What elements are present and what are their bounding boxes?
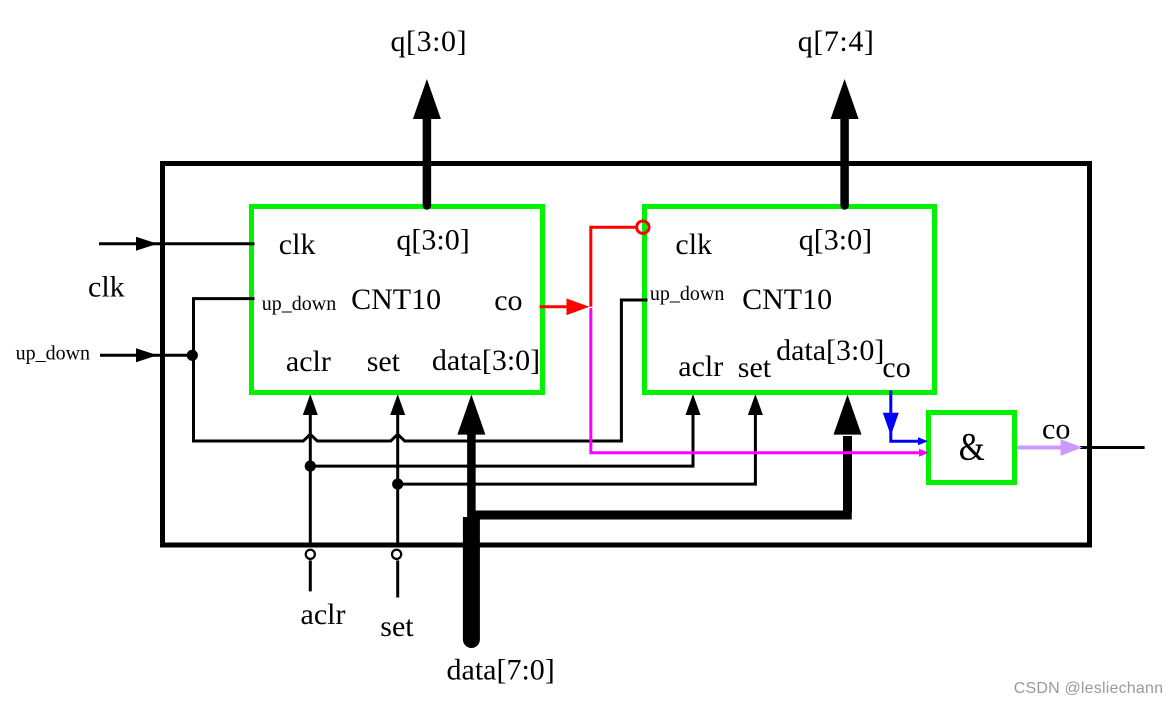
svg-text:clk: clk	[279, 228, 316, 261]
svg-text:q[3:0]: q[3:0]	[391, 25, 468, 58]
svg-text:up_down: up_down	[262, 293, 336, 315]
svg-text:CSDN @lesliechann: CSDN @lesliechann	[1014, 680, 1163, 697]
svg-text:set: set	[738, 351, 772, 384]
svg-text:up_down: up_down	[16, 343, 90, 365]
svg-text:&: &	[959, 426, 985, 469]
svg-text:co: co	[1042, 413, 1070, 446]
svg-text:q[3:0]: q[3:0]	[396, 224, 469, 257]
svg-text:q[3:0]: q[3:0]	[799, 224, 872, 257]
svg-text:up_down: up_down	[650, 283, 724, 305]
svg-text:clk: clk	[88, 271, 125, 304]
svg-text:data[3:0]: data[3:0]	[776, 334, 884, 367]
svg-text:data[3:0]: data[3:0]	[432, 344, 540, 377]
svg-text:CNT10: CNT10	[742, 283, 832, 316]
svg-text:clk: clk	[675, 228, 712, 261]
svg-text:aclr: aclr	[286, 345, 331, 378]
svg-text:co: co	[494, 284, 522, 317]
svg-text:q[7:4]: q[7:4]	[798, 25, 875, 58]
svg-text:CNT10: CNT10	[351, 283, 441, 316]
svg-text:aclr: aclr	[301, 598, 346, 631]
svg-text:set: set	[367, 345, 401, 378]
svg-text:set: set	[380, 610, 414, 643]
svg-text:data[7:0]: data[7:0]	[447, 654, 555, 687]
svg-text:aclr: aclr	[678, 350, 723, 383]
svg-text:co: co	[882, 351, 910, 384]
